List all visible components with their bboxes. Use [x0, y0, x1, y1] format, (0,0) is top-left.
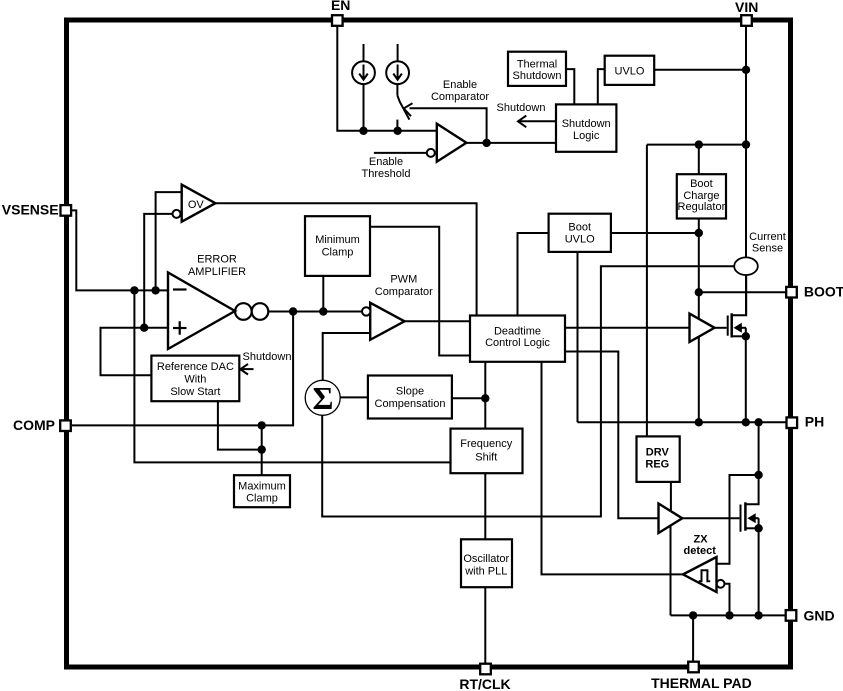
svg-text:Slow Start: Slow Start — [170, 386, 220, 398]
svg-text:with PLL: with PLL — [464, 565, 507, 577]
svg-text:UVLO: UVLO — [615, 66, 645, 78]
svg-text:Enable: Enable — [443, 79, 477, 91]
svg-text:Shift: Shift — [475, 451, 497, 463]
svg-text:GND: GND — [804, 607, 835, 623]
svg-text:Comparator: Comparator — [431, 91, 489, 103]
svg-text:Shutdown: Shutdown — [497, 102, 546, 114]
svg-text:Shutdown: Shutdown — [513, 70, 562, 82]
svg-text:Compensation: Compensation — [375, 398, 446, 410]
svg-text:AMPLIFIER: AMPLIFIER — [188, 266, 246, 278]
svg-text:Control Logic: Control Logic — [485, 337, 550, 349]
svg-text:Oscillator: Oscillator — [463, 553, 509, 565]
svg-text:REG: REG — [645, 459, 669, 471]
svg-text:DRV: DRV — [646, 447, 670, 459]
svg-text:Regulator: Regulator — [678, 201, 726, 213]
svg-text:PH: PH — [805, 414, 824, 430]
svg-text:Slope: Slope — [396, 386, 424, 398]
svg-text:Current: Current — [749, 231, 786, 243]
svg-text:Deadtime: Deadtime — [494, 325, 541, 337]
svg-text:VIN: VIN — [735, 0, 758, 15]
svg-text:THERMAL PAD: THERMAL PAD — [651, 675, 752, 691]
svg-text:Clamp: Clamp — [246, 493, 278, 505]
svg-text:EN: EN — [331, 0, 350, 13]
svg-text:PWM: PWM — [390, 273, 417, 285]
svg-text:Thermal: Thermal — [517, 58, 557, 70]
svg-text:Minimum: Minimum — [315, 234, 360, 246]
svg-text:Maximum: Maximum — [238, 480, 286, 492]
svg-text:Sense: Sense — [752, 243, 783, 255]
svg-text:ERROR: ERROR — [197, 254, 237, 266]
svg-text:Shutdown: Shutdown — [562, 118, 611, 130]
svg-text:Reference DAC: Reference DAC — [157, 361, 234, 373]
svg-text:Charge: Charge — [683, 190, 719, 202]
svg-text:Enable: Enable — [369, 156, 403, 168]
svg-text:Boot: Boot — [568, 221, 591, 233]
svg-text:Boot: Boot — [690, 178, 713, 190]
svg-text:detect: detect — [683, 545, 716, 557]
svg-text:OV: OV — [188, 199, 205, 211]
svg-text:Comparator: Comparator — [375, 286, 433, 298]
svg-text:Logic: Logic — [573, 130, 600, 142]
svg-text:COMP: COMP — [13, 417, 55, 433]
svg-text:Threshold: Threshold — [362, 168, 411, 180]
svg-text:VSENSE: VSENSE — [2, 202, 59, 218]
svg-text:Shutdown: Shutdown — [243, 351, 292, 363]
svg-text:Σ: Σ — [312, 380, 333, 416]
svg-text:ZX: ZX — [693, 533, 708, 545]
svg-text:BOOT: BOOT — [804, 284, 843, 300]
svg-text:RT/CLK: RT/CLK — [459, 676, 510, 691]
svg-text:Clamp: Clamp — [322, 247, 354, 259]
svg-text:Frequency: Frequency — [460, 438, 512, 450]
svg-text:UVLO: UVLO — [565, 233, 595, 245]
svg-text:With: With — [184, 373, 206, 385]
